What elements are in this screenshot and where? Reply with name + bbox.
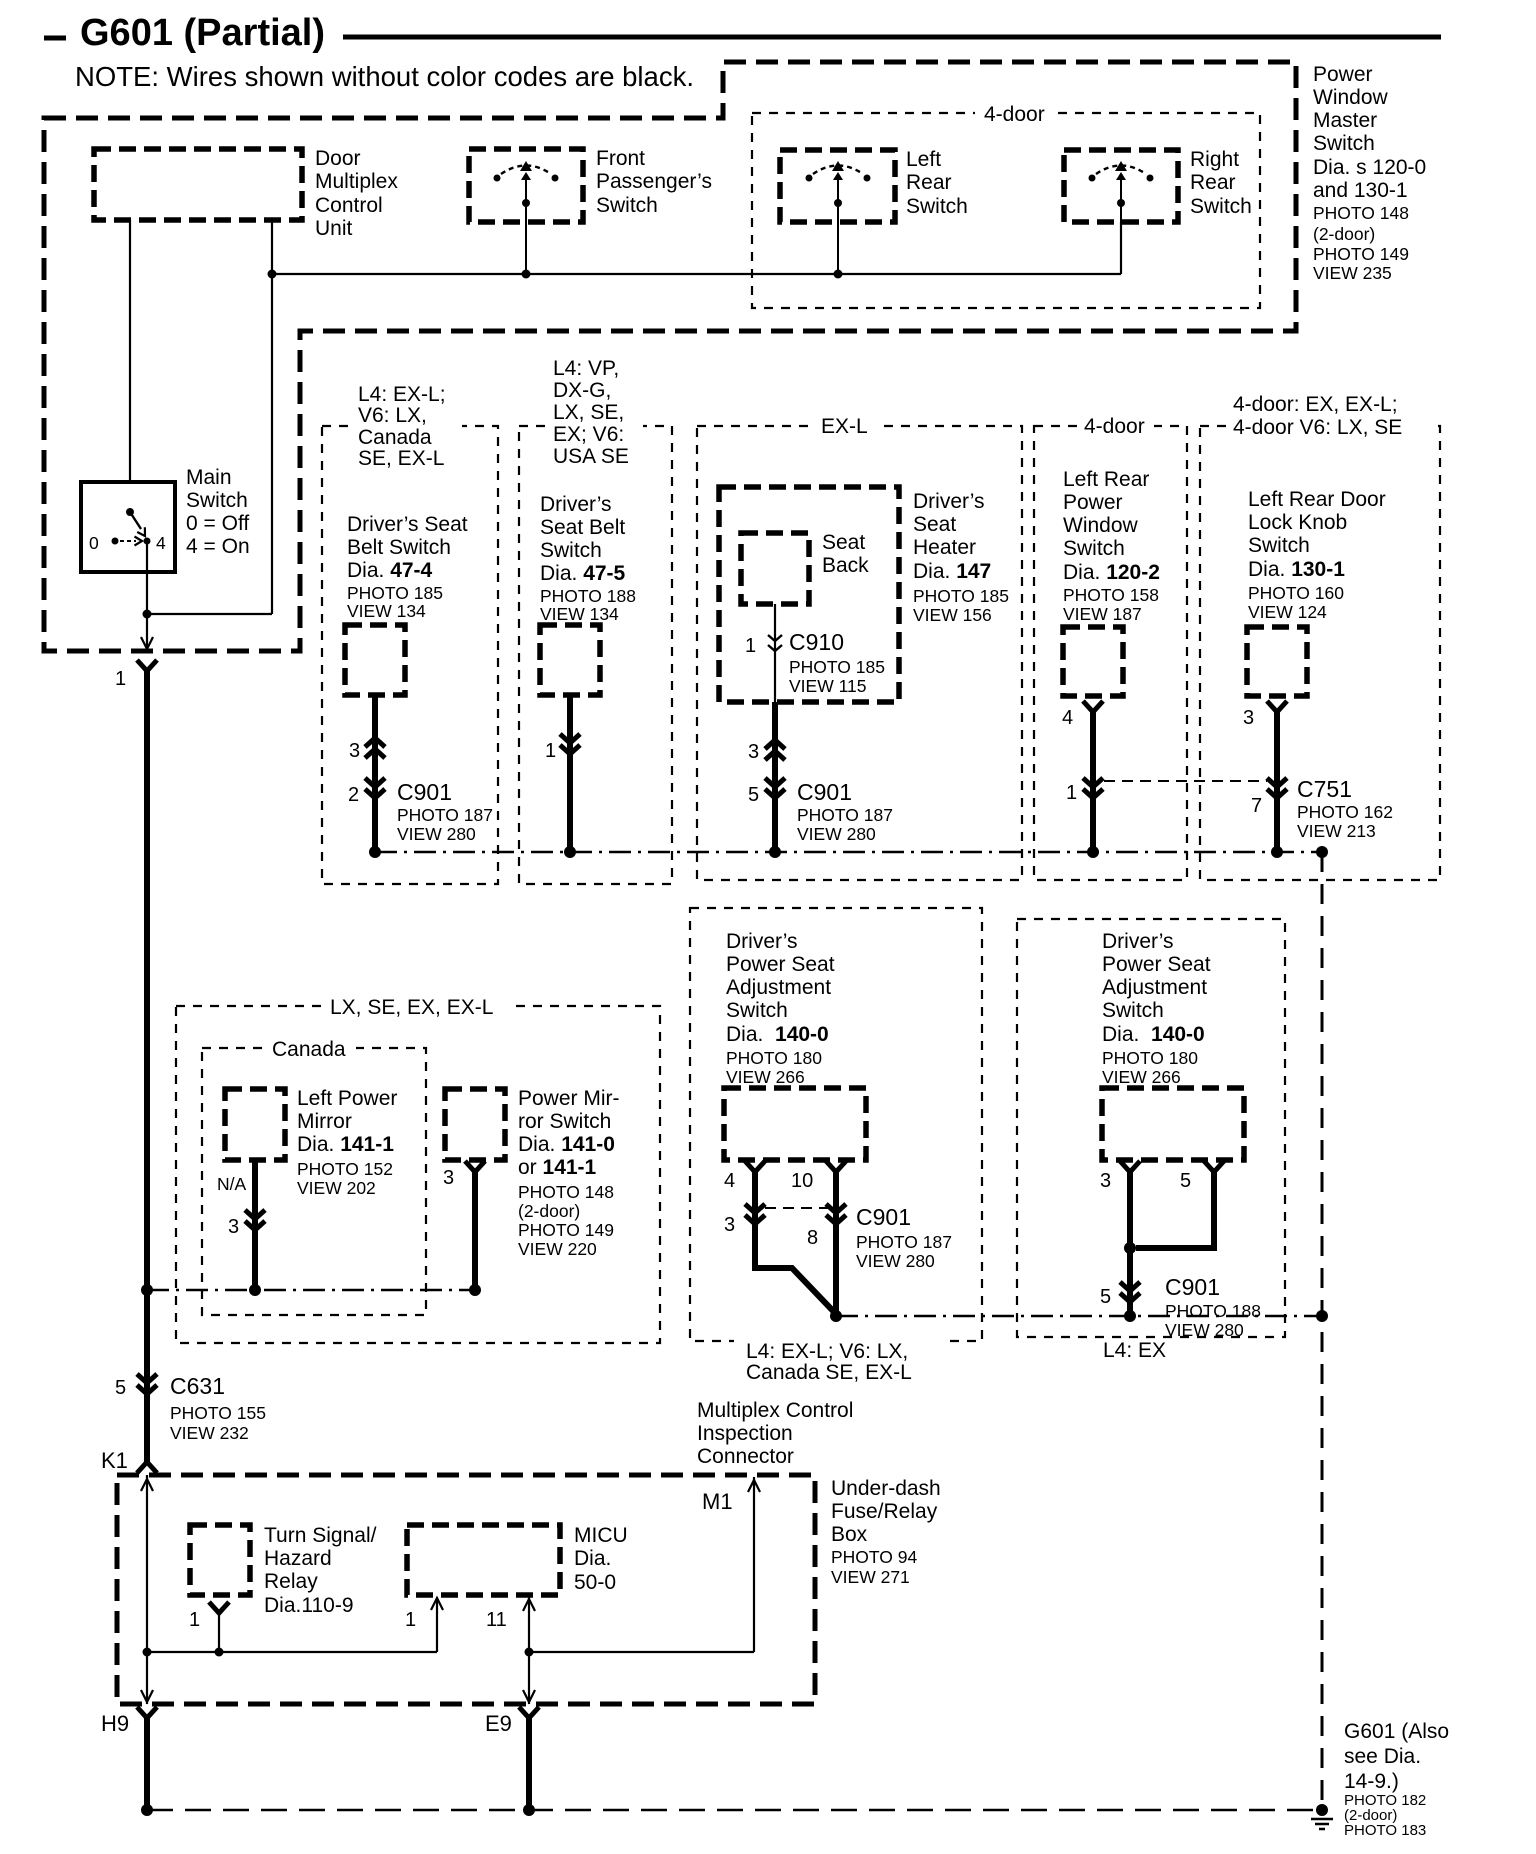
svg-text:Dia. 120-2: Dia. 120-2 — [1063, 561, 1160, 584]
svg-text:PHOTO 160: PHOTO 160 — [1248, 583, 1344, 603]
svg-text:PHOTO 148: PHOTO 148 — [1313, 203, 1409, 223]
svg-text:VIEW 115: VIEW 115 — [789, 676, 867, 696]
svg-text:Switch: Switch — [1313, 132, 1375, 155]
svg-text:PHOTO 94: PHOTO 94 — [831, 1547, 918, 1567]
svg-text:VIEW 266: VIEW 266 — [1102, 1067, 1181, 1087]
svg-text:3: 3 — [228, 1216, 239, 1238]
svg-text:7: 7 — [1251, 795, 1262, 817]
svg-text:Multiplex: Multiplex — [315, 170, 398, 193]
svg-text:Heater: Heater — [913, 536, 976, 559]
svg-text:PHOTO 155: PHOTO 155 — [170, 1403, 266, 1423]
svg-text:Box: Box — [831, 1523, 868, 1546]
svg-text:Mirror: Mirror — [297, 1110, 352, 1133]
svg-text:Driver’s: Driver’s — [540, 493, 612, 516]
svg-text:VIEW 280: VIEW 280 — [1165, 1320, 1244, 1340]
svg-text:(2-door): (2-door) — [1313, 224, 1375, 244]
svg-text:Power: Power — [1063, 491, 1123, 514]
svg-text:Dia. 47-4: Dia. 47-4 — [347, 559, 433, 582]
svg-text:1: 1 — [1066, 782, 1077, 804]
svg-text:L4: EX-L; V6: LX,: L4: EX-L; V6: LX, — [746, 1340, 908, 1363]
svg-text:V6: LX,: V6: LX, — [358, 404, 427, 427]
svg-text:G601 (Partial): G601 (Partial) — [80, 12, 325, 54]
svg-text:Seat: Seat — [822, 531, 865, 554]
svg-text:Canada SE, EX-L: Canada SE, EX-L — [746, 1361, 912, 1384]
svg-text:Seat: Seat — [913, 513, 956, 536]
svg-text:Switch: Switch — [1102, 999, 1164, 1022]
svg-text:PHOTO 188: PHOTO 188 — [1165, 1301, 1261, 1321]
svg-text:4-door V6: LX, SE: 4-door V6: LX, SE — [1233, 416, 1402, 439]
svg-text:8: 8 — [807, 1227, 818, 1249]
svg-text:VIEW 235: VIEW 235 — [1313, 263, 1392, 283]
svg-text:Control: Control — [315, 194, 383, 217]
svg-text:Power Seat: Power Seat — [1102, 953, 1211, 976]
svg-text:3: 3 — [724, 1214, 735, 1236]
svg-text:4-door: 4-door — [984, 103, 1045, 126]
svg-text:Left Rear: Left Rear — [1063, 468, 1149, 491]
svg-text:Dia. 141-1: Dia. 141-1 — [297, 1133, 394, 1156]
svg-text:C901: C901 — [856, 1204, 911, 1230]
svg-text:4-door: EX, EX-L;: 4-door: EX, EX-L; — [1233, 393, 1398, 416]
svg-text:PHOTO 188: PHOTO 188 — [540, 586, 636, 606]
svg-text:VIEW 266: VIEW 266 — [726, 1067, 805, 1087]
svg-text:4: 4 — [156, 533, 166, 553]
svg-text:Rear: Rear — [1190, 171, 1236, 194]
svg-text:PHOTO 152: PHOTO 152 — [297, 1159, 393, 1179]
svg-text:PHOTO 185: PHOTO 185 — [913, 586, 1009, 606]
svg-text:L4: EX: L4: EX — [1103, 1339, 1166, 1362]
svg-text:3: 3 — [443, 1167, 454, 1189]
svg-text:Switch: Switch — [1190, 195, 1252, 218]
svg-text:Driver’s: Driver’s — [913, 490, 985, 513]
svg-text:1: 1 — [545, 740, 556, 762]
svg-text:Dia.: Dia. — [574, 1547, 611, 1570]
svg-text:PHOTO 187: PHOTO 187 — [856, 1232, 952, 1252]
svg-text:and 130-1: and 130-1 — [1313, 179, 1408, 202]
svg-text:Turn Signal/: Turn Signal/ — [264, 1524, 377, 1547]
svg-text:11: 11 — [486, 1609, 507, 1631]
svg-text:Seat Belt: Seat Belt — [540, 516, 625, 539]
svg-text:1: 1 — [115, 668, 126, 690]
svg-text:5: 5 — [748, 784, 759, 806]
svg-text:Left Power: Left Power — [297, 1087, 397, 1110]
svg-text:EX; V6:: EX; V6: — [553, 423, 624, 446]
svg-text:Right: Right — [1190, 148, 1239, 171]
svg-text:USA SE: USA SE — [553, 445, 629, 468]
svg-text:E9: E9 — [485, 1711, 512, 1736]
svg-text:PHOTO 185: PHOTO 185 — [347, 583, 443, 603]
svg-text:Main: Main — [186, 466, 232, 489]
svg-text:1: 1 — [405, 1609, 416, 1631]
svg-text:4-door: 4-door — [1084, 415, 1145, 438]
svg-text:Switch: Switch — [1063, 537, 1125, 560]
svg-text:Back: Back — [822, 554, 869, 577]
svg-text:Dia.110-9: Dia.110-9 — [264, 1594, 354, 1617]
svg-text:SE, EX-L: SE, EX-L — [358, 447, 444, 470]
svg-text:5: 5 — [1100, 1286, 1111, 1308]
svg-text:PHOTO 158: PHOTO 158 — [1063, 585, 1159, 605]
svg-text:4: 4 — [724, 1170, 735, 1192]
svg-text:Switch: Switch — [1248, 534, 1310, 557]
svg-text:VIEW 213: VIEW 213 — [1297, 821, 1376, 841]
svg-text:C631: C631 — [170, 1373, 225, 1399]
svg-text:Passenger’s: Passenger’s — [596, 170, 712, 193]
svg-text:VIEW 124: VIEW 124 — [1248, 602, 1327, 622]
svg-text:Driver’s: Driver’s — [1102, 930, 1174, 953]
svg-text:H9: H9 — [101, 1711, 129, 1736]
svg-text:VIEW 187: VIEW 187 — [1063, 604, 1142, 624]
svg-text:2: 2 — [348, 784, 359, 806]
svg-text:(2-door): (2-door) — [518, 1201, 580, 1221]
svg-text:Switch: Switch — [540, 539, 602, 562]
svg-text:VIEW 280: VIEW 280 — [397, 824, 476, 844]
svg-text:Rear: Rear — [906, 171, 952, 194]
svg-text:PHOTO 180: PHOTO 180 — [726, 1048, 822, 1068]
svg-text:Window: Window — [1313, 86, 1389, 109]
svg-text:Inspection: Inspection — [697, 1422, 793, 1445]
svg-text:PHOTO 187: PHOTO 187 — [397, 805, 493, 825]
svg-text:C901: C901 — [1165, 1274, 1220, 1300]
svg-text:50-0: 50-0 — [574, 1571, 616, 1594]
svg-text:Dia. 130-1: Dia. 130-1 — [1248, 558, 1345, 581]
svg-text:Belt Switch: Belt Switch — [347, 536, 451, 559]
svg-text:Driver’s: Driver’s — [726, 930, 798, 953]
svg-text:C901: C901 — [797, 779, 852, 805]
svg-text:PHOTO 180: PHOTO 180 — [1102, 1048, 1198, 1068]
svg-text:Lock Knob: Lock Knob — [1248, 511, 1347, 534]
svg-text:N/A: N/A — [217, 1174, 247, 1194]
svg-text:10: 10 — [791, 1170, 813, 1192]
svg-text:3: 3 — [349, 740, 360, 762]
svg-text:Switch: Switch — [186, 489, 248, 512]
svg-text:K1: K1 — [101, 1448, 128, 1473]
svg-text:Left: Left — [906, 148, 941, 171]
svg-text:Adjustment: Adjustment — [1102, 976, 1207, 999]
svg-text:VIEW 220: VIEW 220 — [518, 1239, 597, 1259]
svg-text:LX, SE,: LX, SE, — [553, 401, 624, 424]
svg-text:3: 3 — [1100, 1170, 1111, 1192]
svg-text:Power Mir-: Power Mir- — [518, 1087, 620, 1110]
svg-text:VIEW 232: VIEW 232 — [170, 1423, 249, 1443]
svg-text:4 = On: 4 = On — [186, 535, 250, 558]
svg-text:C751: C751 — [1297, 776, 1352, 802]
svg-text:3: 3 — [1243, 707, 1254, 729]
svg-text:C910: C910 — [789, 629, 844, 655]
svg-text:L4: VP,: L4: VP, — [553, 357, 619, 380]
svg-text:PHOTO 162: PHOTO 162 — [1297, 802, 1393, 822]
svg-text:Canada: Canada — [272, 1038, 346, 1061]
svg-text:5: 5 — [1180, 1170, 1191, 1192]
svg-text:Left Rear Door: Left Rear Door — [1248, 488, 1386, 511]
svg-text:PHOTO 183: PHOTO 183 — [1344, 1822, 1426, 1839]
svg-text:L4: EX-L;: L4: EX-L; — [358, 383, 446, 406]
svg-text:see Dia.: see Dia. — [1344, 1745, 1421, 1768]
svg-text:ror Switch: ror Switch — [518, 1110, 611, 1133]
svg-text:Door: Door — [315, 147, 361, 170]
svg-text:Relay: Relay — [264, 1570, 318, 1593]
svg-text:Switch: Switch — [906, 195, 968, 218]
svg-text:PHOTO 149: PHOTO 149 — [1313, 244, 1409, 264]
svg-text:Dia. 140-0: Dia. 140-0 — [726, 1023, 829, 1046]
svg-text:Adjustment: Adjustment — [726, 976, 831, 999]
svg-text:Master: Master — [1313, 109, 1377, 132]
svg-text:14-9.): 14-9.) — [1344, 1770, 1399, 1793]
svg-text:Switch: Switch — [596, 194, 658, 217]
svg-text:MICU: MICU — [574, 1524, 628, 1547]
svg-text:4: 4 — [1062, 707, 1073, 729]
svg-text:Dia. 140-0: Dia. 140-0 — [1102, 1023, 1205, 1046]
svg-text:Connector: Connector — [697, 1445, 794, 1468]
svg-text:Canada: Canada — [358, 426, 432, 449]
svg-text:Dia. 47-5: Dia. 47-5 — [540, 562, 626, 585]
svg-text:0: 0 — [89, 533, 99, 553]
svg-text:LX, SE, EX, EX-L: LX, SE, EX, EX-L — [330, 996, 493, 1019]
svg-text:3: 3 — [748, 741, 759, 763]
svg-text:Front: Front — [596, 147, 645, 170]
svg-text:NOTE: Wires shown without colo: NOTE: Wires shown without color codes ar… — [75, 61, 694, 92]
svg-text:EX-L: EX-L — [821, 415, 868, 438]
svg-text:Switch: Switch — [726, 999, 788, 1022]
svg-text:DX-G,: DX-G, — [553, 379, 611, 402]
svg-text:VIEW 271: VIEW 271 — [831, 1567, 910, 1587]
svg-text:M1: M1 — [702, 1489, 733, 1514]
svg-text:PHOTO 185: PHOTO 185 — [789, 657, 885, 677]
svg-text:Dia. 141-0: Dia. 141-0 — [518, 1133, 615, 1156]
svg-text:Driver’s Seat: Driver’s Seat — [347, 513, 468, 536]
svg-text:VIEW 156: VIEW 156 — [913, 605, 992, 625]
svg-text:Power: Power — [1313, 63, 1373, 86]
svg-text:Unit: Unit — [315, 217, 353, 240]
svg-text:Power Seat: Power Seat — [726, 953, 835, 976]
svg-text:Under-dash: Under-dash — [831, 1477, 941, 1500]
svg-text:Multiplex Control: Multiplex Control — [697, 1399, 853, 1422]
svg-text:PHOTO 148: PHOTO 148 — [518, 1182, 614, 1202]
svg-text:C901: C901 — [397, 779, 452, 805]
svg-text:or 141-1: or 141-1 — [518, 1156, 597, 1179]
svg-text:Hazard: Hazard — [264, 1547, 332, 1570]
svg-text:5: 5 — [115, 1377, 126, 1399]
svg-text:0 = Off: 0 = Off — [186, 512, 249, 535]
svg-text:1: 1 — [745, 635, 756, 657]
svg-text:VIEW 202: VIEW 202 — [297, 1178, 376, 1198]
svg-text:Window: Window — [1063, 514, 1139, 537]
svg-text:PHOTO 187: PHOTO 187 — [797, 805, 893, 825]
svg-text:1: 1 — [189, 1609, 200, 1631]
svg-text:Dia. 147: Dia. 147 — [913, 560, 991, 583]
svg-text:VIEW 280: VIEW 280 — [797, 824, 876, 844]
svg-text:VIEW 134: VIEW 134 — [347, 601, 426, 621]
svg-text:PHOTO 149: PHOTO 149 — [518, 1220, 614, 1240]
svg-text:Fuse/Relay: Fuse/Relay — [831, 1500, 938, 1523]
svg-text:VIEW 280: VIEW 280 — [856, 1251, 935, 1271]
svg-text:Dia. s 120-0: Dia. s 120-0 — [1313, 156, 1426, 179]
svg-text:G601 (Also: G601 (Also — [1344, 1720, 1449, 1743]
svg-text:VIEW 134: VIEW 134 — [540, 604, 619, 624]
